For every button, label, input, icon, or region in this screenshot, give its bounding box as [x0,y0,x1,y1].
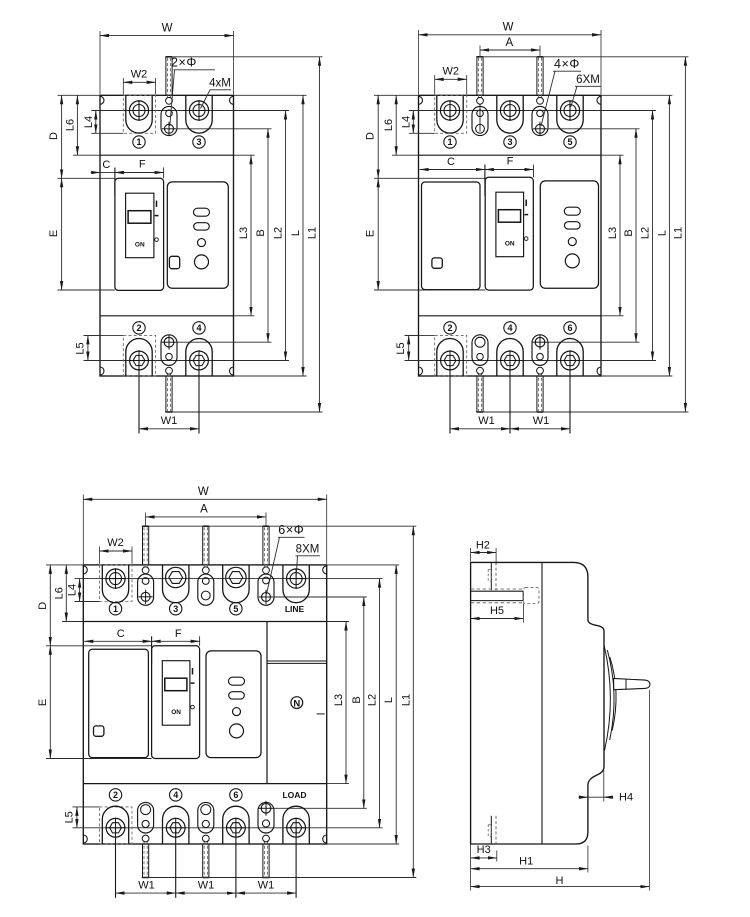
svg-text:W1: W1 [478,415,495,427]
drawing1 terminal 3 screw [189,101,208,120]
drawing2 terminal 3 pad [497,95,523,133]
svg-text:A: A [200,504,208,516]
drawing3 pole labels top [109,603,121,615]
svg-text:E: E [365,230,377,237]
drawing3 terminal 4 pad [163,806,189,844]
svg-text:6XM: 6XM [576,74,600,86]
svg-text:W2: W2 [442,66,459,78]
drawing1 terminal 1 screw [129,101,148,120]
drawing3 E dimension [49,646,51,759]
drawing1 test button square [169,256,179,268]
svg-text:L2: L2 [273,227,285,239]
svg-text:B: B [351,696,363,703]
svg-text:L5: L5 [395,342,407,354]
drawing2 L2 dimension [652,111,654,361]
drawing1 terminal 3 pad [186,95,212,133]
svg-text:L2: L2 [640,227,652,239]
drawing4 mounting slot [471,590,524,592]
drawing2 A dimension [479,46,481,57]
drawing4 din clip dashed rect [523,588,539,604]
drawing4 body profile [471,562,604,844]
drawing3 L1 bottom extension [142,877,417,879]
drawing4 H4 dimension [603,770,605,802]
drawing3 section line bottom [83,783,326,785]
svg-text:L3: L3 [333,694,345,706]
drawing2 L1 bottom extension [476,411,688,413]
drawing2 oval 1 bottom [472,335,488,366]
drawing3 section line top [83,621,326,623]
drawing3 oval 1 top [138,574,154,605]
drawing2 line through top screw centers [409,110,656,112]
svg-text:W2: W2 [131,69,148,81]
svg-text:4×Φ: 4×Φ [554,57,580,71]
drawing1 L dimension [302,95,304,376]
drawing2 terminal 5 pad [557,95,583,133]
drawing4 handle boss arc inner [610,657,616,731]
drawing1 escutcheon [115,178,164,290]
svg-text:C: C [447,156,455,168]
drawing1 bottom oval phi hole [164,337,174,347]
drawing3 L3 dimension [345,622,347,784]
drawing1 label 3 [193,136,205,148]
drawing2 line through top phi hole [548,128,640,130]
drawing4 handle [614,678,650,689]
drawing1 W dimension [99,31,101,94]
drawing3 W1 dimension [115,828,117,898]
svg-text:D: D [37,602,49,610]
drawing1 C F dimension [114,168,116,197]
svg-text:L4: L4 [83,116,95,128]
svg-text:L5: L5 [63,811,75,823]
drawing2 C F dimension [484,165,486,197]
drawing4 lower screw slot [490,816,492,844]
svg-text:H: H [556,875,564,887]
drawing3 terminal 1 pad [102,565,128,603]
drawing1 corner notch bottom-left [100,367,104,375]
drawing3 terminal 3 hex screw [166,567,186,587]
svg-text:2×Φ: 2×Φ [171,56,197,70]
drawing4 H dimension [648,690,650,891]
drawing3 top tabs [142,526,144,565]
drawing3 bottom pad lower edge line [73,806,100,808]
drawing2 corner notches [419,96,423,104]
drawing2 body outline [419,95,602,376]
svg-text:L6: L6 [383,119,395,131]
svg-text:W1: W1 [198,880,215,892]
svg-text:L3: L3 [238,227,250,239]
svg-text:A: A [505,37,513,49]
drawing1 B dimension [267,129,269,342]
drawing2 escutcheon [485,177,533,290]
drawing2 blank panel [422,182,481,290]
drawing4 H5 dimension [522,604,524,623]
drawing1 bottom oval small hole [166,353,173,360]
svg-text:5: 5 [233,604,238,614]
drawing3 escutcheon [152,646,200,759]
drawing3 line through top screw centers [75,578,383,580]
drawing3 oval 1 bottom [138,802,154,833]
drawing1 center oval bottom [161,335,177,366]
drawing3 oval 3 top [258,574,274,605]
svg-text:L3: L3 [607,227,619,239]
drawing1 L1 dimension [319,57,321,412]
drawing1 line through top phi hole [177,128,272,130]
drawing1 body outline [100,95,234,376]
svg-text:2: 2 [113,790,118,800]
drawing1 line through bottom phi hole [177,341,272,343]
drawing3 LINE terminal pad [283,565,309,603]
drawing1 line through bottom screw centers [84,360,290,362]
svg-text:B: B [255,229,267,236]
drawing2 terminal 4 pad [497,339,523,377]
svg-text:H1: H1 [519,856,533,868]
drawing2 L3 dimension [619,155,621,316]
drawing1 oval small hole [166,110,173,117]
drawing1 bottom pad lower edge line [84,334,124,336]
drawing3 L6 dimension [65,565,67,622]
drawing3 pole labels bottom [109,789,121,801]
drawing1 L2 dimension [285,111,287,361]
drawing1 oval phi hole [165,124,174,133]
drawing3 bottom tabs [142,844,144,878]
svg-text:H2: H2 [476,540,490,552]
svg-text:W: W [162,23,173,35]
drawing3 neutral pole double line [267,660,327,662]
drawing3 terminal 5 hex screw [226,567,246,587]
svg-text:2: 2 [447,323,452,333]
drawing3 dashed clamp rect terminal 1 [100,565,133,602]
drawing2 dashed clamp rect terminal 2 [435,335,467,376]
drawing2 top pad lower edge line [409,132,435,134]
svg-text:4xM: 4xM [209,78,231,90]
drawing1 bottom tab [165,376,167,412]
drawing2 dashed clamp rect terminal 1 [435,95,467,133]
svg-text:W2: W2 [107,537,124,549]
svg-text:B: B [623,229,635,236]
drawing2 E dimension [377,178,379,290]
drawing3 terminal 6 pad [223,806,249,844]
drawing3 oval 3 bottom [258,802,274,833]
drawing3 B dimension [363,597,365,808]
drawing3 A dimension [145,513,147,527]
svg-text:W1: W1 [533,415,550,427]
drawing3 neutral pole divider [266,622,268,784]
drawing2 W dimension [418,30,420,94]
drawing1 L5 extensions [84,334,101,336]
svg-text:3: 3 [507,137,512,147]
svg-text:F: F [175,628,182,640]
drawing2 L5 dimension [405,334,419,336]
svg-text:L6: L6 [64,119,76,131]
svg-text:1: 1 [136,137,141,147]
drawing1 label 1 [133,136,145,148]
drawing2 oval 2 bottom [532,335,548,366]
drawing2 bottom tabs [476,376,478,412]
drawing3 terminal 5 pad [223,565,249,603]
drawing1 section line bottom [100,315,234,317]
drawing1 L1 bottom extension [165,411,323,413]
drawing1 corner notch bottom-right [230,367,234,375]
drawing1 terminal 1 pad [126,95,152,133]
svg-text:W1: W1 [138,880,155,892]
drawing3 LOAD terminal pad [283,806,309,844]
svg-text:3: 3 [196,137,201,147]
svg-text:E: E [37,699,49,706]
drawing3 body outline [83,565,326,844]
drawing3 dashed clamp rect terminal 2 [100,807,133,844]
svg-text:6: 6 [233,790,238,800]
drawing2 B dimension [635,129,637,342]
drawing3 top pad lower edge line [75,601,100,603]
drawing2 terminal 1 screw [440,101,459,120]
drawing1 W1 dimension [138,361,140,434]
drawing3 line through top phi hole [274,596,367,598]
drawing2 section line top [419,154,602,156]
drawing1 label 4 [193,322,205,334]
drawing3 right extensions [327,564,400,566]
drawing4 handle boss arc outer [604,645,610,751]
drawing2 bottom pad lower edge line [405,334,435,336]
drawing3 L1 dimension [412,526,414,877]
drawing1 D dimension [61,95,63,178]
svg-text:E: E [48,230,60,237]
svg-text:ON: ON [505,241,515,248]
drawing3 L5 dimension [76,807,78,828]
drawing1 line through top screw centers [91,110,289,112]
svg-text:W1: W1 [161,415,178,427]
svg-text:L1: L1 [400,694,412,706]
drawing1 left extensions [58,94,101,96]
drawing2 right extensions [601,94,672,96]
svg-text:W: W [198,486,209,498]
drawing2 terminal 5 screw [560,101,579,120]
drawing2 terminal 1 pad [437,95,463,133]
drawing3 oval 2 bottom [198,802,214,833]
drawing1 L1 top extension [165,56,323,58]
drawing2 line through bottom screw centers [405,360,657,362]
drawing1 terminal 4 screw [190,351,209,370]
svg-text:L6: L6 [53,587,65,599]
drawing3 terminal 2 pad [102,806,128,844]
drawing1 corner notch top-right [230,96,234,104]
drawing3 corner notches [83,566,87,574]
drawing2 pole labels top [444,136,456,148]
drawing3 neutral tick [317,713,325,715]
svg-text:H3: H3 [477,844,491,856]
drawing4 handle boss arc middle [607,650,614,740]
drawing1 top pad lower edge line [91,132,123,134]
drawing2 oval 1 top [472,106,488,135]
svg-text:ON: ON [171,709,181,716]
svg-text:3: 3 [173,604,178,614]
drawing2 L dimension [668,95,670,376]
svg-text:D: D [48,132,60,140]
svg-text:L2: L2 [367,694,379,706]
drawing2 terminal 3 screw [500,101,519,120]
drawing3 neutral N symbol [291,697,303,709]
drawing3 L2 dimension [379,579,381,828]
svg-text:2: 2 [136,323,141,333]
drawing3 W2 dimension [99,547,101,564]
drawing2 section line bottom [419,315,602,317]
drawing2 oval 2 top [532,106,548,135]
drawing3 left extensions [46,564,83,566]
svg-text:L1: L1 [672,227,684,239]
svg-text:1: 1 [113,604,118,614]
drawing1 section line top [100,154,234,156]
drawing2 L6 dimension [395,95,397,155]
drawing1 L3 dimension [250,155,252,316]
drawing1 label 2 [133,322,145,334]
svg-text:D: D [365,132,377,140]
drawing1 terminal 2 pad [126,339,152,376]
drawing3 L1 top extension [142,525,417,527]
drawing3 W dimension [82,495,84,564]
drawing2 W2 dimension [434,75,436,94]
drawing4 H1 dimension [470,844,472,891]
drawing1 L5 dimension [87,335,89,360]
drawing3 terminal 1 screw [106,569,125,588]
svg-text:4: 4 [507,323,512,333]
drawing4 H2 dimension [470,548,472,561]
svg-text:LOAD: LOAD [282,790,306,800]
drawing1 dashed clamp rect terminal 1 [123,95,155,133]
drawing2 L4 dimension [412,111,414,134]
drawing3 L4 dimension [79,579,81,602]
svg-text:L1: L1 [307,227,319,239]
drawing3 LINE terminal screw [287,569,306,588]
svg-text:F: F [139,159,146,171]
svg-text:4: 4 [173,790,178,800]
svg-text:LINE: LINE [285,604,305,614]
svg-text:H5: H5 [490,605,504,617]
drawing2 D dimension [377,95,379,178]
svg-text:C: C [102,159,110,171]
svg-text:6×Φ: 6×Φ [278,523,304,537]
svg-text:L: L [656,230,668,236]
drawing2 line through bottom phi hole [548,341,640,343]
drawing1 center oval top [161,106,177,135]
drawing3 blank panel [89,649,149,757]
svg-text:W1: W1 [258,880,275,892]
drawing1 terminal 2 screw [130,351,149,370]
drawing4 H3 dimension [496,851,498,862]
svg-text:F: F [507,156,514,168]
drawing1 corner notch top-left [100,96,104,104]
drawing3 oval 2 top [198,574,214,605]
svg-text:ON: ON [135,242,145,249]
drawing4 upper screw slot [490,562,492,590]
drawing1 W2 dimension [122,78,124,94]
svg-text:L4: L4 [67,584,79,596]
svg-text:H4: H4 [619,792,633,804]
drawing1 dashed clamp rect terminal 2 [123,335,155,376]
drawing4 mounting slot dashed lines [471,588,524,590]
svg-text:8XM: 8XM [296,544,320,556]
svg-text:5: 5 [567,137,572,147]
drawing2 left extensions [374,94,419,96]
drawing3 accessory panel [206,651,261,758]
drawing2 top tabs [476,57,478,96]
drawing3 terminal 3 pad [163,565,189,603]
drawing3 line through bottom phi hole [274,807,367,809]
drawing4 handle collar line [625,679,627,689]
drawing1 accessory panel [167,182,228,288]
drawing2 L1 dimension [684,57,686,412]
drawing1 right extensions [234,94,307,96]
svg-text:C: C [117,628,125,640]
svg-text:L4: L4 [400,116,412,128]
drawing2 pole labels bottom [444,322,456,334]
drawing1 L6 dimension [76,95,78,155]
svg-text:4: 4 [196,323,201,333]
svg-text:6: 6 [567,323,572,333]
drawing3 L dimension [395,565,397,844]
svg-text:L5: L5 [74,342,86,354]
drawing2 terminal 6 pad [557,339,583,377]
drawing1 terminal 4 pad [186,339,212,376]
svg-text:N: N [293,698,300,709]
drawing1 top tab [165,57,167,96]
drawing1 E dimension [61,178,63,290]
drawing2 L1 top extension [476,56,688,58]
drawing3 C F dimension [151,636,153,664]
svg-text:L: L [290,230,302,236]
svg-text:L: L [383,697,395,703]
drawing1 L4 dimension [95,111,97,134]
drawing2 W1 dimension [449,361,451,434]
svg-text:1: 1 [447,137,452,147]
drawing3 D dimension [49,565,51,646]
drawing3 line through bottom screw centers [73,827,383,829]
drawing2 terminal 2 pad [437,339,463,377]
drawing2 accessory panel [540,181,598,288]
svg-text:W: W [503,22,514,34]
drawing4 cover split line [541,562,543,844]
